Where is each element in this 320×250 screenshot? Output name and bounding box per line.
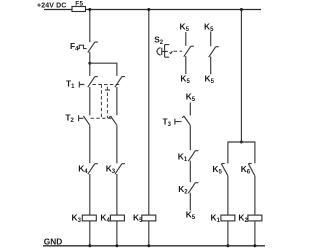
- svg-text:K1: K1: [211, 213, 221, 225]
- wire: right T-bar: [228, 142, 255, 163]
- T3 link (dashed): [179, 121, 183, 123]
- junction GND rail / coil K5: [147, 244, 150, 247]
- coil K1: [221, 215, 235, 221]
- wire: column K3 bottom stub: [185, 56, 187, 74]
- T1 mechanical link (dashed): [93, 84, 121, 86]
- wire: left column x=89.8 from rail to F4: [89, 10, 91, 43]
- junction top rail / K5 branch: [147, 8, 150, 11]
- wire: column K5 top stub: [210, 32, 212, 47]
- svg-text:K5: K5: [212, 164, 222, 176]
- junction GND rail / coil K4: [115, 244, 118, 247]
- svg-text:K2: K2: [238, 213, 248, 225]
- svg-text:S2: S2: [154, 35, 164, 47]
- linkage cross mark: [105, 89, 110, 91]
- linkage dashed vertical 1: [100, 85, 102, 119]
- svg-text:K5: K5: [204, 22, 214, 34]
- node: branch junction: [88, 62, 91, 65]
- svg-text:K5: K5: [205, 74, 215, 86]
- svg-text:K5: K5: [133, 213, 143, 225]
- svg-text:T3: T3: [163, 116, 172, 128]
- svg-text:K1: K1: [178, 152, 188, 164]
- contact T3 (back-slash): [184, 116, 190, 125]
- svg-text:K4: K4: [100, 213, 110, 225]
- wire: T2 right to K3 contact: [116, 125, 118, 163]
- contact T2 left (back-slash): [83, 116, 89, 125]
- wire: K2 contact to bottom stub: [189, 193, 191, 211]
- pushbutton S2 actuator: [157, 48, 161, 55]
- wire: T3 to K1 contact: [189, 125, 191, 150]
- junction GND rail / coil K3: [88, 244, 91, 247]
- contact T1 right: [115, 77, 122, 88]
- wire: K3 contact to coil K4: [116, 174, 118, 215]
- svg-text:F4: F4: [70, 41, 79, 53]
- wire: coil K1 to GND: [227, 221, 229, 246]
- svg-text:K2: K2: [178, 184, 188, 196]
- contact T2 right (back-slash): [111, 116, 117, 125]
- svg-text:K5: K5: [180, 74, 190, 86]
- contact F4 (slash + tick): [88, 42, 95, 52]
- contact K2: [188, 183, 195, 194]
- svg-text:K3: K3: [106, 164, 116, 176]
- contact K4: [88, 164, 95, 175]
- svg-text:T2: T2: [65, 113, 74, 125]
- contact K6 (right pair, back-slash): [248, 164, 255, 176]
- junction top rail / right feeder: [240, 8, 243, 11]
- wire: coil K2 to GND: [254, 221, 256, 246]
- coil K2: [248, 215, 262, 221]
- linkage dashed vertical 2: [106, 87, 108, 119]
- wire: column K5 bottom stub: [210, 57, 212, 75]
- wire: coil K4 to GND: [116, 221, 118, 246]
- wire: branch to right column: [90, 63, 117, 76]
- contact K1: [188, 151, 195, 162]
- junction top rail / K3 branch: [88, 8, 91, 11]
- wire: K1 to K2 contact: [189, 161, 191, 183]
- junction GND rail / coil K2: [253, 244, 256, 247]
- S2 link (dashed): [174, 50, 182, 52]
- T2 mechanical link (dashed): [91, 117, 113, 119]
- junction GND rail / coil K1: [226, 244, 229, 247]
- wire: right feeder from rail: [240, 10, 242, 143]
- svg-text:+24V DC: +24V DC: [37, 3, 66, 10]
- wire: K6 contact to coil K2: [254, 176, 256, 215]
- wire: K5 contact to coil K1: [227, 176, 229, 215]
- F4 thermal actuator squiggle: [78, 45, 87, 48]
- wire: F4 to junction: [89, 52, 91, 63]
- svg-text:GND: GND: [44, 236, 62, 246]
- wire: middle column top: [189, 103, 191, 116]
- contact S2/K3 column: [184, 46, 191, 57]
- coil K5: [142, 215, 156, 221]
- T3 actuator bar: [175, 119, 179, 125]
- fuse F5: [72, 7, 86, 12]
- svg-text:F5: F5: [75, 1, 83, 8]
- svg-text:K4: K4: [78, 164, 88, 176]
- GND rail: [43, 245, 265, 247]
- coil K3: [82, 215, 96, 221]
- contact K3: [115, 164, 122, 175]
- svg-text:K5: K5: [186, 91, 196, 103]
- contact K5 (right pair, back-slash): [221, 164, 228, 176]
- T1 actuator bar: [79, 82, 84, 88]
- contact K5 column: [209, 47, 216, 58]
- wire: coil K5 to GND: [148, 221, 150, 246]
- wire: T2 left to K4 contact: [89, 125, 91, 163]
- wire: rail to coil K5 (x=148.8): [148, 10, 150, 216]
- svg-text:K3: K3: [72, 213, 82, 225]
- wire: T1 left to T2 left: [89, 87, 91, 115]
- T2 actuator bar: [79, 115, 84, 121]
- wire: coil K3 to GND: [89, 221, 91, 246]
- S2 detent latch: [170, 51, 173, 53]
- wire: T1 right to T2 right: [116, 87, 118, 115]
- wire: K4 contact to coil K3: [89, 174, 91, 215]
- +24V DC rail: [44, 9, 261, 11]
- wire: column K3 top stub: [185, 32, 187, 46]
- node: right T junction: [240, 141, 243, 144]
- svg-text:K5: K5: [180, 22, 190, 34]
- wire: junction to T1 left: [89, 63, 91, 76]
- coil K4: [110, 215, 124, 221]
- contact T1 left: [88, 77, 95, 88]
- svg-text:T1: T1: [66, 79, 75, 91]
- svg-text:K5: K5: [186, 210, 196, 222]
